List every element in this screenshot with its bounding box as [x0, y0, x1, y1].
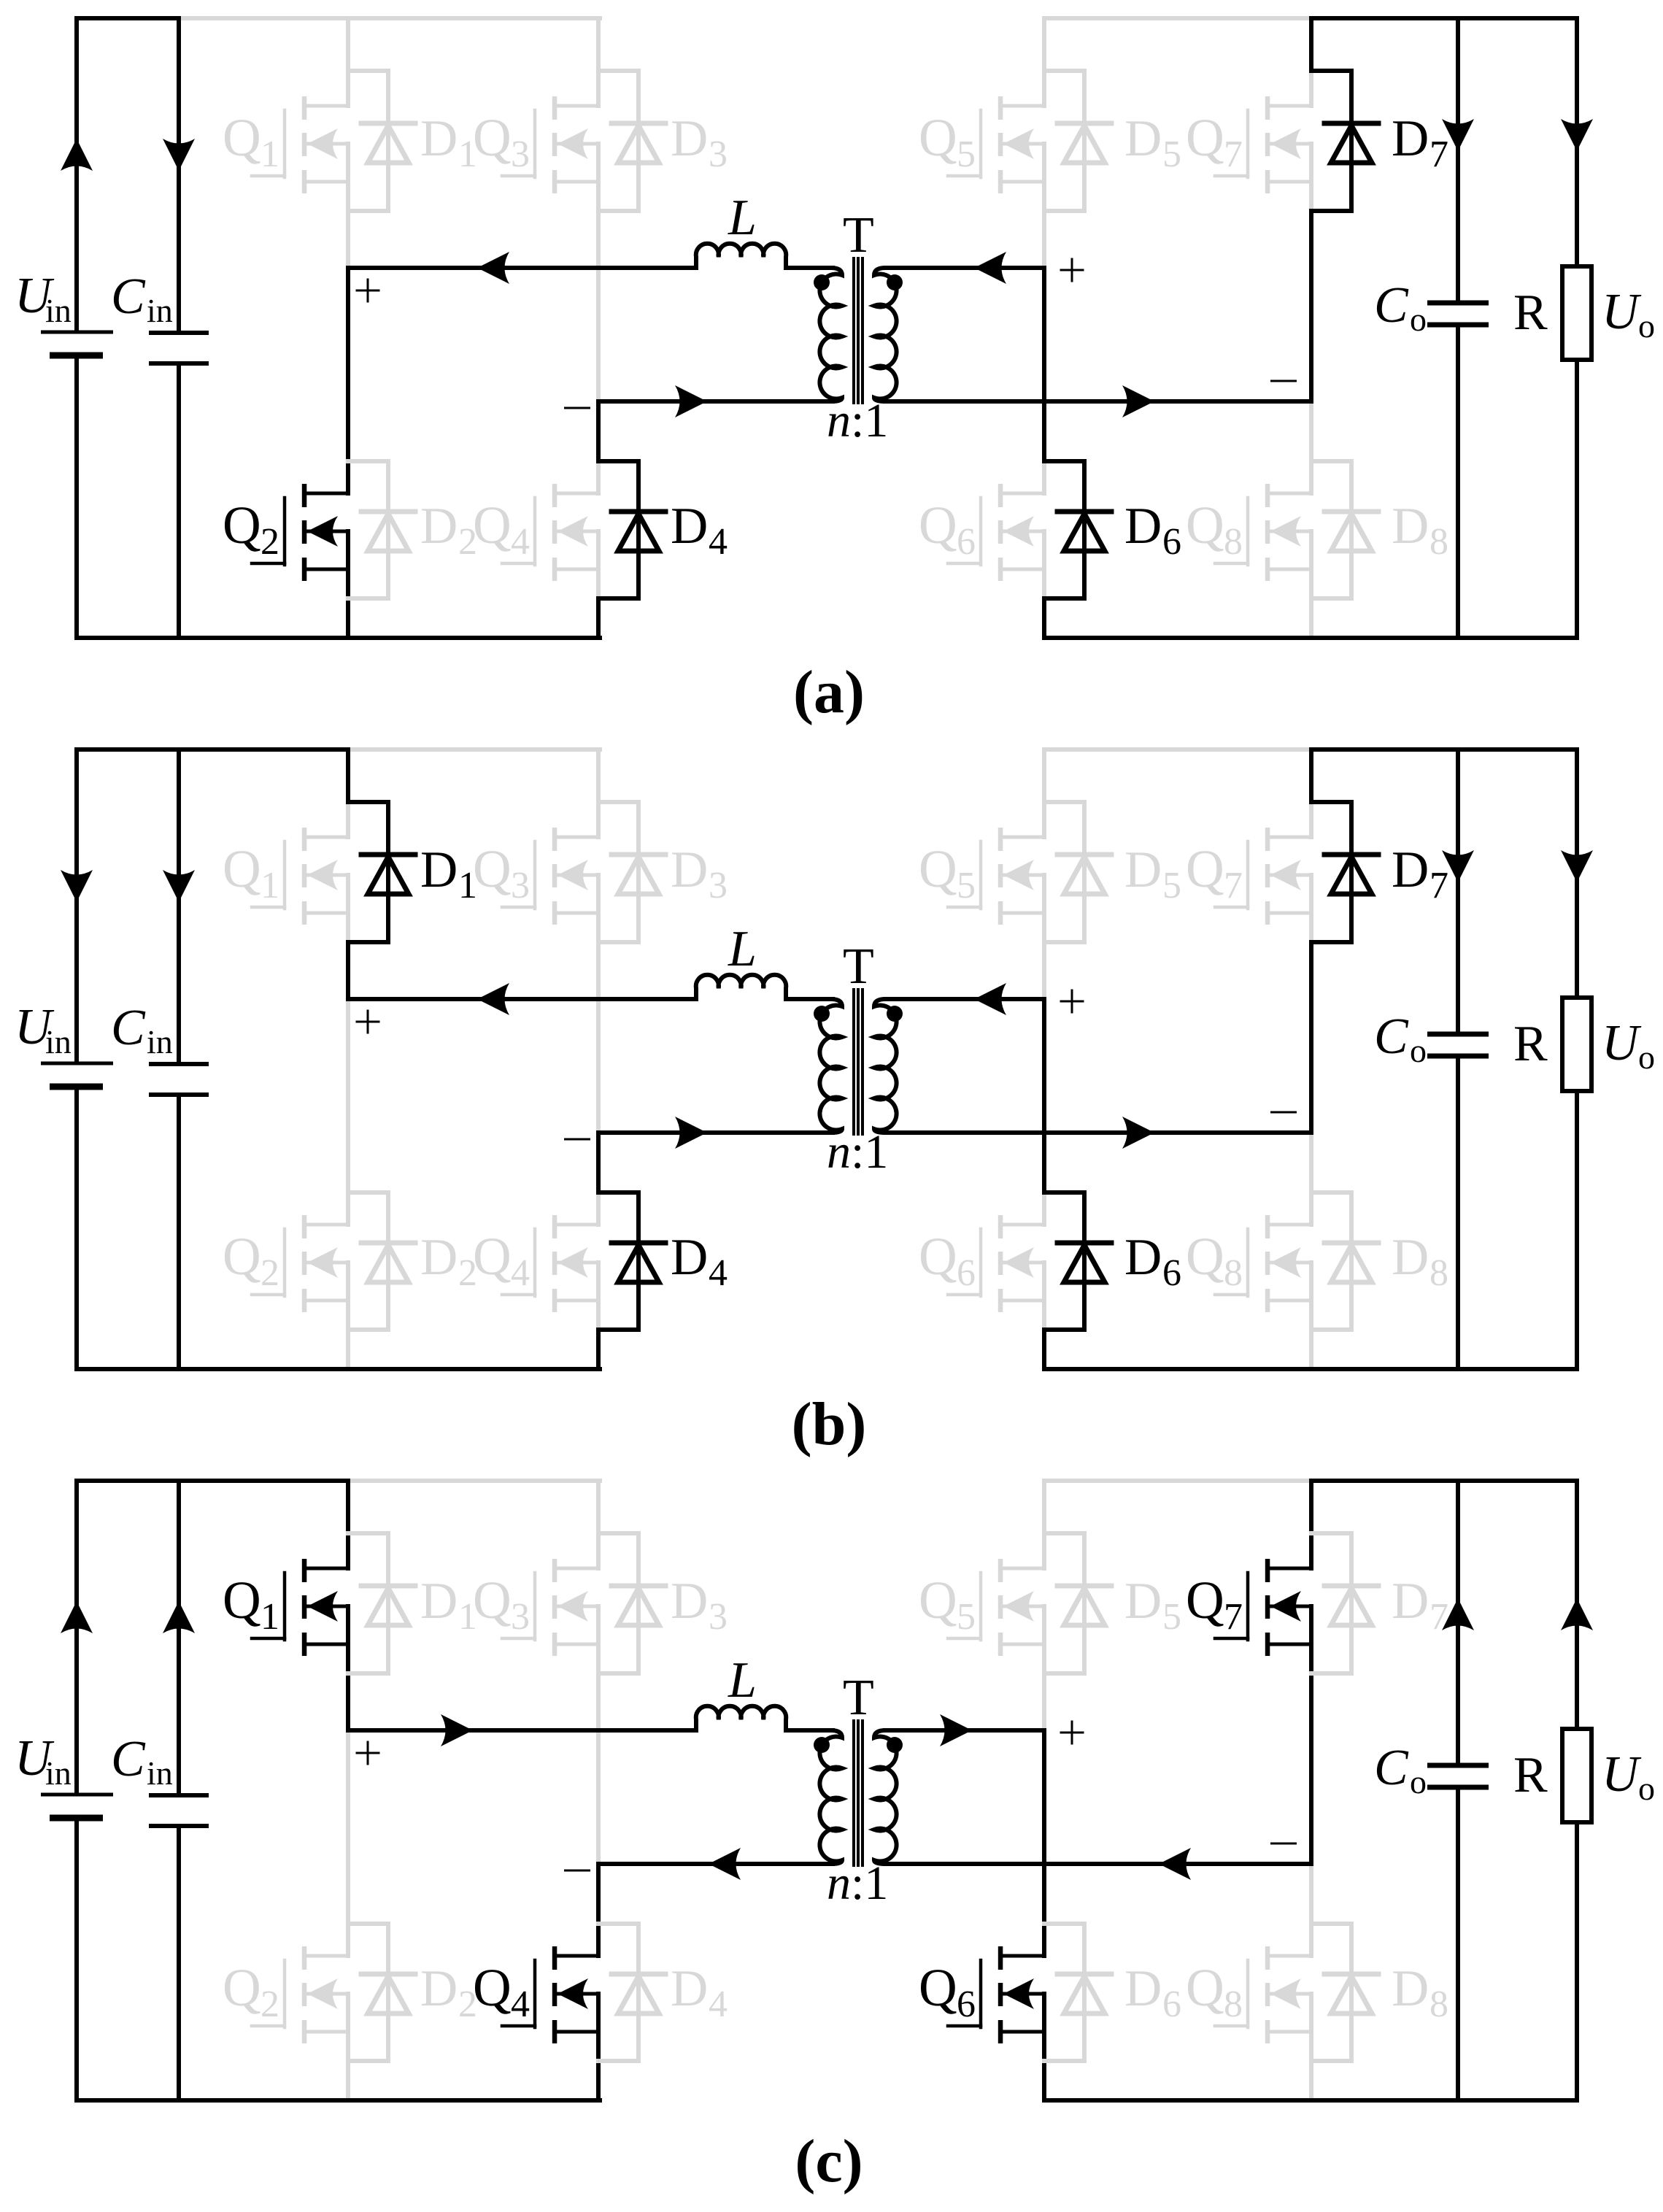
wire: top rail right (idle segment): [1044, 1479, 1311, 1483]
wire: leg1 lower segments: [346, 999, 350, 1192]
diode label D4: [671, 1960, 728, 2025]
wire: top rail right (idle segment): [1044, 16, 1311, 20]
capacitor C_o: [1427, 1481, 1489, 2100]
transistor Q6: [948, 461, 1044, 598]
svg-text:5: 5: [957, 134, 976, 175]
wire: bridge output + wire (left): [348, 266, 695, 270]
wire: bottom rail left: [77, 2098, 600, 2103]
wire: leg3 upper segments: [1042, 749, 1046, 802]
svg-text:8: 8: [1429, 1984, 1448, 2025]
wire: leg3 lower segments: [1042, 268, 1046, 461]
svg-text:U: U: [1602, 1015, 1642, 1071]
svg-text:C: C: [111, 269, 146, 325]
wire: leg1 upper segments: [346, 18, 350, 71]
svg-text:D: D: [1124, 110, 1162, 167]
body diode D6 with branch wire: [1044, 461, 1111, 598]
svg-text:D: D: [420, 498, 458, 555]
body diode D5 with branch wire: [1044, 802, 1111, 942]
wire: leg2 upper segments: [596, 749, 601, 802]
wire: leg2 lower segments: [596, 1864, 601, 1924]
wire: secondary - wire (right): [885, 1862, 1311, 1866]
subfigure (b): [15, 749, 1655, 1369]
wire: bridge output - wire (left): [598, 1862, 833, 1866]
transistor label Q4: [473, 1227, 530, 1294]
transformer secondary dot: [887, 1737, 903, 1753]
body diode D7 with branch wire: [1311, 802, 1378, 942]
current arrow (input source branch): [61, 870, 93, 902]
transistor Q7: [1215, 802, 1311, 942]
diode label D3: [671, 1573, 728, 1638]
diode label D4: [671, 1229, 728, 1294]
svg-text:6: 6: [1162, 1252, 1181, 1294]
node - (right bridge input): [1270, 1843, 1297, 1845]
wire: top rail left (idle segment): [179, 16, 600, 20]
label U_in: [15, 268, 72, 329]
transistor Q4: [502, 461, 598, 598]
svg-text:1: 1: [261, 1596, 279, 1638]
node - (left bridge output): [564, 1138, 590, 1141]
svg-text:D: D: [1392, 1229, 1429, 1286]
diode label D1: [420, 841, 477, 906]
svg-text:L: L: [728, 1652, 757, 1708]
svg-text:Q: Q: [1186, 1958, 1224, 2017]
resistor R: [1562, 749, 1591, 1369]
transistor label Q1: [223, 839, 279, 906]
current arrow (primary top wire): [477, 252, 509, 284]
transistor label Q2: [223, 1958, 279, 2025]
diode label D8: [1392, 1960, 1448, 2025]
node + (right bridge input): [1061, 259, 1083, 281]
wire: leg1 upper segments: [346, 749, 350, 802]
svg-text:D: D: [671, 1229, 708, 1286]
body diode D8 with branch wire: [1311, 1924, 1378, 2061]
wire: secondary + wire (right): [885, 997, 1044, 1001]
wire: secondary + wire (right): [885, 266, 1044, 270]
wire: bottom rail right: [1044, 1367, 1577, 1371]
transistor label Q2: [223, 1227, 279, 1294]
diode label D7: [1392, 1573, 1448, 1638]
svg-text:Q: Q: [919, 108, 957, 167]
wire: secondary - wire (right): [885, 399, 1311, 404]
body diode D1 with branch wire: [348, 802, 415, 942]
svg-text:Q: Q: [1186, 108, 1224, 167]
svg-text:8: 8: [1224, 1252, 1243, 1294]
current arrow (primary bottom wire): [675, 1117, 707, 1149]
wire: leg3 lower segments: [1042, 999, 1046, 1192]
transformer primary dot: [814, 274, 830, 290]
svg-text:o: o: [1410, 1032, 1427, 1069]
transistor Q7: [1215, 71, 1311, 211]
resistor R: [1562, 18, 1591, 638]
svg-text:(b): (b): [792, 1390, 867, 1458]
svg-text:D: D: [671, 841, 708, 898]
body diode D5 with branch wire: [1044, 71, 1111, 211]
diode label D3: [671, 841, 728, 906]
svg-text:Q: Q: [223, 496, 261, 555]
svg-text:Q: Q: [919, 1958, 957, 2017]
diode label D1: [420, 110, 477, 175]
svg-text:Q: Q: [473, 839, 512, 898]
svg-text:6: 6: [957, 1984, 976, 2025]
svg-text:o: o: [1638, 307, 1655, 344]
transistor label Q4: [473, 1958, 530, 2025]
transformer T core: [854, 257, 863, 404]
svg-text:D: D: [1392, 498, 1429, 555]
wire: leg1 upper segments: [346, 1481, 350, 1533]
wire: top rail left (conducting): [77, 16, 179, 20]
svg-text:L: L: [728, 921, 757, 977]
current arrow (secondary bottom wire): [1122, 1117, 1154, 1149]
subfigure (a): [15, 18, 1655, 638]
body diode D6 with branch wire: [1044, 1192, 1111, 1330]
svg-text:6: 6: [957, 521, 976, 563]
transistor label Q7: [1186, 1571, 1243, 1638]
node + (left bridge output): [357, 1011, 379, 1033]
svg-text:L: L: [728, 190, 757, 246]
voltage source U_in: [41, 1481, 113, 2100]
svg-text:in: in: [147, 1754, 173, 1792]
svg-text:Q: Q: [473, 108, 512, 167]
transistor label Q8: [1186, 1958, 1243, 2025]
voltage source U_in: [41, 749, 113, 1369]
diode label D6: [1124, 1229, 1181, 1294]
current arrow (secondary top wire): [974, 252, 1006, 284]
svg-text:D: D: [1392, 1573, 1429, 1630]
body diode D7 with branch wire: [1311, 71, 1378, 211]
svg-text:D: D: [671, 1960, 708, 2017]
wire: bottom rail right: [1044, 636, 1577, 640]
transistor label Q6: [919, 1958, 976, 2025]
diode label D6: [1124, 1960, 1181, 2025]
transistor Q2: [252, 1192, 348, 1330]
transistor label Q7: [1186, 839, 1243, 906]
current arrow (input source branch): [61, 1601, 93, 1633]
transistor Q2: [252, 461, 348, 598]
current arrow (output capacitor branch): [1442, 850, 1474, 882]
transistor Q2: [252, 1924, 348, 2061]
transistor label Q6: [919, 1227, 976, 1294]
transistor label Q3: [473, 839, 530, 906]
transformer T secondary winding: [874, 268, 897, 401]
svg-text:3: 3: [709, 865, 728, 906]
wire: bottom rail right: [1044, 2098, 1577, 2103]
svg-text:C: C: [1374, 1009, 1409, 1065]
svg-text:D: D: [1124, 498, 1162, 555]
wire: leg4 upper segments: [1309, 749, 1313, 802]
svg-text:8: 8: [1429, 521, 1448, 563]
current arrow (secondary bottom wire): [1122, 385, 1154, 417]
svg-text:5: 5: [1162, 134, 1181, 175]
inductor L: [696, 975, 786, 999]
svg-text:2: 2: [261, 1252, 279, 1294]
svg-text:1: 1: [261, 865, 279, 906]
svg-text:7: 7: [1224, 134, 1243, 175]
transistor Q4: [502, 1924, 598, 2061]
svg-text:1: 1: [261, 134, 279, 175]
capacitor C_o: [1427, 18, 1489, 638]
svg-text:2: 2: [261, 521, 279, 563]
transistor Q4: [502, 1192, 598, 1330]
diode label D8: [1392, 498, 1448, 563]
transistor Q6: [948, 1924, 1044, 2061]
svg-text:D: D: [671, 1573, 708, 1630]
label U_o: [1602, 284, 1655, 344]
svg-text:7: 7: [1429, 1596, 1448, 1638]
transformer primary dot: [814, 1006, 830, 1022]
svg-text:Q: Q: [919, 1571, 957, 1630]
svg-text:Q: Q: [223, 1958, 261, 2017]
label C_in: [111, 1000, 173, 1060]
svg-text:Q: Q: [223, 108, 261, 167]
diode label D5: [1124, 110, 1181, 175]
transistor Q1: [252, 71, 348, 211]
svg-text:D: D: [420, 1229, 458, 1286]
wire: bridge output + wire (left): [348, 997, 695, 1001]
svg-text:D: D: [1392, 110, 1429, 167]
svg-text:C: C: [111, 1000, 146, 1056]
svg-text:(c): (c): [795, 2127, 863, 2195]
wire: leg4 upper segments: [1309, 18, 1313, 71]
svg-text:Q: Q: [1186, 1571, 1224, 1630]
transformer T secondary winding: [874, 999, 897, 1133]
transistor label Q8: [1186, 496, 1243, 563]
capacitor C_o: [1427, 749, 1489, 1369]
wire: top rail left (conducting): [77, 1479, 348, 1483]
svg-text:D: D: [1124, 841, 1162, 898]
capacitor C_in: [149, 1481, 209, 2100]
svg-text:7: 7: [1224, 1596, 1243, 1638]
svg-text:Q: Q: [223, 839, 261, 898]
diode label D5: [1124, 1573, 1181, 1638]
current arrow (output capacitor branch): [1442, 1598, 1474, 1630]
capacitor C_in: [149, 18, 209, 638]
node - (left bridge output): [564, 1870, 590, 1872]
body diode D1 with branch wire: [348, 71, 415, 211]
label C_o: [1374, 277, 1427, 338]
svg-text:3: 3: [511, 865, 530, 906]
body diode D8 with branch wire: [1311, 1192, 1378, 1330]
transistor Q6: [948, 1192, 1044, 1330]
svg-text:D: D: [420, 841, 458, 898]
svg-text:4: 4: [709, 521, 728, 563]
node - (right bridge input): [1270, 1111, 1297, 1114]
label C_in: [111, 269, 173, 329]
svg-text:D: D: [420, 1573, 458, 1630]
wire: leg3 upper segments: [1042, 1481, 1046, 1533]
svg-text:n:1: n:1: [827, 394, 888, 447]
node + (right bridge input): [1061, 1722, 1083, 1743]
transistor label Q5: [919, 1571, 976, 1638]
svg-text:6: 6: [957, 1252, 976, 1294]
svg-text:4: 4: [511, 521, 530, 563]
transistor Q3: [502, 1533, 598, 1673]
svg-text:C: C: [111, 1731, 146, 1787]
body diode D3 with branch wire: [598, 71, 665, 211]
svg-text:D: D: [671, 498, 708, 555]
transformer T primary winding: [819, 999, 842, 1133]
diode label D2: [420, 1229, 477, 1294]
svg-text:4: 4: [709, 1984, 728, 2025]
body diode D4 with branch wire: [598, 1192, 665, 1330]
node + (left bridge output): [357, 280, 379, 301]
wire: leg3 lower segments: [1042, 1730, 1046, 1924]
diode label D6: [1124, 498, 1181, 563]
svg-text:o: o: [1410, 301, 1427, 338]
svg-text:D: D: [420, 1960, 458, 2017]
transformer T primary winding: [819, 268, 842, 401]
svg-text:R: R: [1513, 285, 1548, 341]
svg-text:U: U: [1602, 284, 1642, 340]
wire: top rail right (conducting): [1311, 16, 1577, 20]
voltage source U_in: [41, 18, 113, 638]
diode label D1: [420, 1573, 477, 1638]
svg-text:Q: Q: [473, 1958, 512, 2017]
svg-text:in: in: [45, 1754, 72, 1792]
svg-text:7: 7: [1429, 134, 1448, 175]
wire: secondary + wire (right): [885, 1728, 1044, 1733]
svg-text:3: 3: [709, 1596, 728, 1638]
svg-text:in: in: [45, 1023, 72, 1060]
svg-text:R: R: [1513, 1016, 1548, 1072]
svg-text:8: 8: [1224, 1984, 1243, 2025]
body diode D7 with branch wire: [1311, 1533, 1378, 1673]
diode label D8: [1392, 1229, 1448, 1294]
transistor Q5: [948, 802, 1044, 942]
svg-text:Q: Q: [473, 496, 512, 555]
current arrow (input capacitor branch): [163, 1601, 195, 1633]
transistor label Q2: [223, 496, 279, 563]
svg-text:in: in: [147, 1023, 173, 1060]
svg-text:T: T: [843, 939, 874, 995]
current arrow (primary top wire): [477, 983, 509, 1015]
svg-text:Q: Q: [919, 839, 957, 898]
svg-text:R: R: [1513, 1747, 1548, 1803]
diode label D7: [1392, 110, 1448, 175]
transistor Q8: [1215, 461, 1311, 598]
transistor Q1: [252, 802, 348, 942]
transformer T core: [854, 988, 863, 1136]
svg-text:7: 7: [1429, 865, 1448, 906]
svg-text:o: o: [1410, 1763, 1427, 1800]
diode label D2: [420, 498, 477, 563]
svg-text:3: 3: [511, 134, 530, 175]
body diode D2 with branch wire: [348, 1924, 415, 2061]
label U_in: [15, 1730, 72, 1792]
transistor label Q3: [473, 108, 530, 175]
transistor Q8: [1215, 1924, 1311, 2061]
body diode D6 with branch wire: [1044, 1924, 1111, 2061]
inductor L: [696, 1706, 786, 1730]
wire: bridge output + wire (left): [348, 1728, 695, 1733]
wire: leg4 lower segments: [1309, 1864, 1313, 1924]
node + (left bridge output): [357, 1742, 379, 1764]
diode label D2: [420, 1960, 477, 2025]
svg-text:6: 6: [1162, 1984, 1181, 2025]
svg-text:8: 8: [1429, 1252, 1448, 1294]
body diode D5 with branch wire: [1044, 1533, 1111, 1673]
subfigure (c): [15, 1481, 1655, 2100]
transistor label Q6: [919, 496, 976, 563]
svg-text:C: C: [1374, 277, 1409, 334]
transistor Q3: [502, 802, 598, 942]
body diode D2 with branch wire: [348, 461, 415, 598]
svg-text:4: 4: [511, 1252, 530, 1294]
wire: leg4 lower segments: [1309, 401, 1313, 461]
transistor Q7: [1215, 1533, 1311, 1673]
transistor label Q5: [919, 108, 976, 175]
label U_o: [1602, 1015, 1655, 1076]
wire: secondary - wire (right): [885, 1130, 1311, 1135]
wire: leg1 lower segments: [346, 1730, 350, 1924]
body diode D4 with branch wire: [598, 461, 665, 598]
svg-text:U: U: [1602, 1746, 1642, 1803]
wire: leg2 lower segments: [596, 401, 601, 461]
svg-text:2: 2: [261, 1984, 279, 2025]
diode label D5: [1124, 841, 1181, 906]
svg-text:Q: Q: [1186, 1227, 1224, 1286]
svg-text:n:1: n:1: [827, 1857, 888, 1910]
wire: leg3 upper segments: [1042, 18, 1046, 71]
transistor Q1: [252, 1533, 348, 1673]
svg-text:3: 3: [709, 134, 728, 175]
transistor label Q3: [473, 1571, 530, 1638]
svg-text:Q: Q: [1186, 839, 1224, 898]
wire: bridge output - wire (left): [598, 399, 833, 404]
svg-text:C: C: [1374, 1740, 1409, 1796]
svg-text:3: 3: [511, 1596, 530, 1638]
label U_in: [15, 999, 72, 1060]
svg-text:Q: Q: [1186, 496, 1224, 555]
svg-text:5: 5: [1162, 865, 1181, 906]
current arrow (load branch): [1561, 1598, 1593, 1630]
svg-text:(a): (a): [793, 658, 865, 726]
transistor label Q7: [1186, 108, 1243, 175]
svg-text:6: 6: [1162, 521, 1181, 563]
transformer secondary dot: [887, 1006, 903, 1022]
wire: top rail right (idle segment): [1044, 747, 1311, 752]
svg-text:7: 7: [1224, 865, 1243, 906]
current arrow (load branch): [1561, 850, 1593, 882]
current arrow (input capacitor branch): [163, 139, 195, 171]
wire: leg4 lower segments: [1309, 1133, 1313, 1192]
current arrow (input source branch): [61, 139, 93, 171]
wire: top rail left (idle segment): [348, 1479, 600, 1483]
transformer T core: [854, 1719, 863, 1867]
svg-text:in: in: [45, 292, 72, 329]
current arrow (secondary top wire): [974, 983, 1006, 1015]
label C_in: [111, 1731, 173, 1792]
svg-text:D: D: [1124, 1229, 1162, 1286]
transistor Q5: [948, 1533, 1044, 1673]
svg-text:1: 1: [458, 865, 477, 906]
svg-text:5: 5: [957, 865, 976, 906]
svg-text:1: 1: [458, 1596, 477, 1638]
transformer primary dot: [814, 1737, 830, 1753]
svg-text:D: D: [1124, 1573, 1162, 1630]
wire: leg2 lower segments: [596, 1133, 601, 1192]
diode label D7: [1392, 841, 1448, 906]
transistor label Q1: [223, 108, 279, 175]
wire: leg2 upper segments: [596, 18, 601, 71]
transformer T secondary winding: [874, 1730, 897, 1864]
inductor L: [696, 244, 786, 268]
svg-text:D: D: [420, 110, 458, 167]
transistor Q5: [948, 71, 1044, 211]
svg-text:n:1: n:1: [827, 1125, 888, 1179]
wire: leg4 upper segments: [1309, 1481, 1313, 1533]
capacitor C_in: [149, 749, 209, 1369]
svg-text:T: T: [843, 1670, 874, 1726]
